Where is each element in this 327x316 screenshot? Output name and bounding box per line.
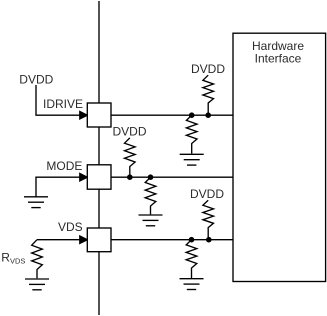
svg-text:DVDD: DVDD	[19, 72, 53, 86]
wire VDS pin to hardware interface	[111, 239, 233, 241]
resistor MODE pull-down	[145, 177, 156, 214]
wire MODE pin to hardware interface	[111, 176, 233, 178]
resistor IDRIVE pull-up to DVDD	[203, 75, 214, 113]
wire RVDS to VDS pin	[37, 239, 81, 241]
svg-text:DVDD: DVDD	[112, 125, 146, 139]
svg-text:RVDS: RVDS	[1, 250, 25, 265]
svg-text:MODE: MODE	[46, 159, 82, 173]
resistor IDRIVE pull-down	[186, 115, 197, 153]
resistor VDS pull-up to DVDD	[203, 200, 214, 237]
svg-text:IDRIVE: IDRIVE	[43, 97, 83, 111]
resistor VDS pull-down	[186, 240, 197, 278]
resistor MODE pull-up to DVDD	[125, 138, 136, 175]
arrow into IDRIVE pin	[80, 112, 88, 119]
node junction VDS pull-up	[206, 237, 212, 243]
wire DVDD to IDRIVE pin	[36, 85, 81, 115]
ground (MODE input)	[24, 197, 48, 208]
node junction MODE pull-up	[127, 174, 133, 180]
node junction VDS pull-down	[189, 237, 195, 243]
pin box VDS	[87, 228, 111, 252]
node junction IDRIVE pull-up	[205, 112, 211, 118]
ground (IDRIVE pull-down)	[180, 154, 204, 165]
ground (VDS pull-down)	[180, 279, 204, 290]
svg-text:Interface: Interface	[255, 51, 302, 65]
resistor R_VDS	[32, 240, 43, 279]
svg-text:DVDD: DVDD	[191, 62, 225, 76]
wire IDRIVE pin to hardware interface	[111, 114, 233, 116]
svg-text:DVDD: DVDD	[190, 187, 224, 201]
hardware interface block U1	[233, 33, 326, 281]
svg-text:VDS: VDS	[58, 220, 83, 234]
wire ground to MODE pin	[36, 177, 81, 197]
node junction MODE pull-down	[148, 174, 154, 180]
ground (MODE pull-down)	[139, 215, 163, 226]
pin box MODE	[87, 165, 111, 189]
wire bus vertical line	[98, 1, 100, 315]
ground (R_VDS)	[25, 279, 49, 290]
arrow into VDS pin	[80, 236, 88, 243]
pin box IDRIVE	[87, 103, 111, 127]
arrow into MODE pin	[80, 174, 88, 181]
node junction IDRIVE pull-down	[189, 112, 195, 118]
